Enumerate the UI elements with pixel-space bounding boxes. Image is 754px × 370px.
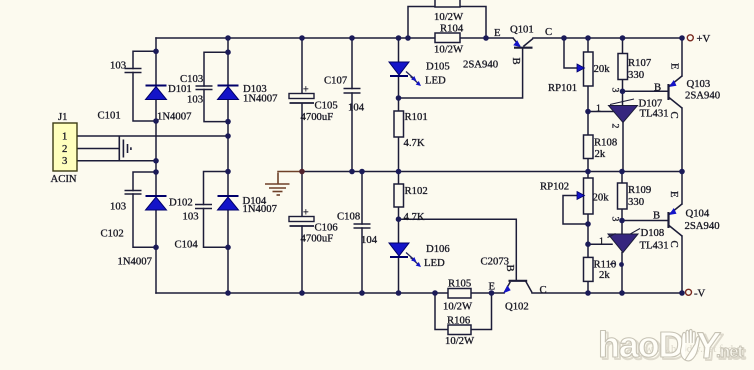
wire Q102 base to LED node [399,219,517,280]
svg-text:103: 103 [187,94,203,106]
capacitor C102 103 [101,191,142,240]
wire Q103 emitter collector stubs [681,38,683,172]
wire bottom -V rail right of Q102 [532,292,682,294]
wire C106 branch [301,172,303,294]
svg-text:TL431: TL431 [640,240,669,252]
svg-text:D105: D105 [426,61,450,73]
svg-text:D106: D106 [426,243,450,255]
resistor R104 10/2W [434,23,464,56]
svg-text:1: 1 [596,103,601,114]
junction dots left bus [153,49,159,251]
capacitor C106 4700uF electrolytic [289,208,338,245]
svg-text:C102: C102 [101,228,124,240]
wire J1 pin2 to chassis [77,148,119,150]
svg-text:3: 3 [62,155,67,167]
svg-text:B: B [654,82,661,94]
svg-text:3: 3 [609,217,620,222]
svg-text:330: 330 [628,69,644,81]
svg-text:E: E [668,191,680,198]
svg-text:330: 330 [628,196,644,208]
junction dots bottom rail [225,290,685,296]
svg-text:C103: C103 [180,73,203,85]
svg-text:D102: D102 [169,197,193,209]
svg-text:1N4007: 1N4007 [157,111,192,123]
svg-text:1N4007: 1N4007 [243,93,278,105]
wire top +V rail right of Q101 [533,37,682,39]
svg-text:2: 2 [62,143,67,155]
svg-text:R109: R109 [628,184,651,196]
resistor R105 10/2W [443,278,473,313]
svg-text:Q101: Q101 [510,24,534,36]
svg-text:+: + [303,85,309,96]
svg-text:Q103: Q103 [687,78,711,90]
svg-text:2k: 2k [595,148,606,160]
wire C105 branch [301,38,303,172]
svg-text:B: B [653,210,660,222]
capacitor C101 103 [98,60,142,122]
wire D108 ref pin1 [588,243,612,245]
svg-text:TL431: TL431 [640,108,669,120]
svg-text:4.7K: 4.7K [404,211,425,223]
svg-text:.net: .net [716,342,744,361]
wire Q104 emitter collector stubs [681,172,683,294]
wire Q103 base [623,90,669,92]
svg-text:R106: R106 [447,315,471,327]
svg-text:E: E [668,63,680,70]
svg-text:4700uF: 4700uF [301,111,334,123]
svg-text:R102: R102 [405,185,428,197]
svg-text:104: 104 [361,234,378,246]
wire Q101 collector to RP101 wiper [564,38,578,68]
svg-text:haoD: haoD [598,324,683,365]
connector J1 ACIN [51,111,78,185]
wire second bridge bus x=228 [227,38,229,293]
wire C102 loop [133,172,156,247]
LED D106 [389,243,450,269]
svg-text:C101: C101 [98,110,121,122]
wire D107 ref pin1 [588,111,613,113]
resistor R109 330 [618,183,652,209]
svg-text:103: 103 [183,211,199,223]
svg-text:C107: C107 [324,75,348,87]
capacitor C103 103 [180,73,213,106]
svg-text:R101: R101 [405,111,428,123]
svg-text:2SA940: 2SA940 [685,220,720,232]
svg-text:B: B [504,265,516,272]
wire R109 D108 column [621,172,623,294]
svg-text:ACIN: ACIN [51,173,77,185]
svg-text:20k: 20k [593,192,610,204]
svg-text:C104: C104 [175,239,199,251]
svg-text:R105: R105 [448,278,471,290]
resistor R102 4.7K [394,184,428,223]
svg-text:C108: C108 [337,211,360,223]
svg-text:R107: R107 [628,57,652,69]
transistor Q102 C2073 [481,256,547,313]
wire Q104 base [622,220,668,222]
wire RP101 R108 column [587,38,589,172]
svg-text:C105: C105 [315,100,338,112]
junction dots second bus [225,49,231,250]
potentiometer RP101 20k [548,52,610,94]
svg-text:10/2W: 10/2W [434,44,464,56]
svg-text:20k: 20k [594,63,611,75]
capacitor C108 104 [337,211,378,247]
svg-text:-V: -V [694,288,706,300]
wire 0V mid rail [278,171,682,173]
svg-text:D108: D108 [641,227,665,239]
resistor R110 2k [584,257,624,281]
svg-text:1N4007: 1N4007 [243,203,278,215]
svg-text:R108: R108 [594,137,617,149]
capacitor C105 4700uF electrolytic [289,85,338,124]
svg-text:E: E [494,27,501,39]
wire left bridge bus x=156 [155,38,157,293]
svg-text:3: 3 [610,88,621,93]
svg-text:R104: R104 [440,23,464,35]
svg-text:LED: LED [424,257,445,269]
wire J1 pin1 to bridge [77,135,228,137]
chassis earth on J1 pin2 [119,137,131,161]
junction dots top rail [225,35,685,41]
svg-text:1N4007: 1N4007 [118,256,153,268]
resistor R101 4.7K [394,111,428,149]
wire R107 D107 column [622,38,625,172]
junction dots misc nodes [396,89,626,248]
svg-text:4700uF: 4700uF [301,233,334,245]
svg-text:10/2W: 10/2W [443,301,473,313]
svg-text:RP101: RP101 [548,82,577,94]
svg-text:10/2W: 10/2W [445,335,475,347]
wire C108 branch [361,172,363,294]
svg-text:B: B [510,58,522,65]
svg-text:10/2W: 10/2W [434,11,464,23]
svg-text:103: 103 [110,60,126,72]
transistor Q101 2SA940 [463,24,552,71]
shunt regulator D107 TL431 [596,88,669,129]
shunt regulator D108 TL431 [599,217,669,253]
svg-text:103: 103 [110,201,126,213]
junction dots mid rail [299,169,685,175]
svg-text:Q104: Q104 [686,208,710,220]
wire R102 D106 branch [398,172,400,294]
svg-text:J1: J1 [58,111,68,123]
diode D103 1N4007 [218,83,279,105]
svg-text:2: 2 [610,124,621,129]
svg-text:104: 104 [348,102,365,114]
wire R106 parallel loop [435,293,492,330]
potentiometer RP102 20k [540,178,609,214]
wire C104 loop [204,172,229,248]
svg-text:C: C [668,241,680,248]
svg-text:1: 1 [599,236,604,247]
svg-text:LED: LED [425,75,446,87]
terminal +V [687,33,710,45]
svg-text:1: 1 [62,131,67,143]
capacitor C107 104 [324,75,365,114]
svg-text:+: + [303,208,309,219]
watermark haoDIY.net [598,324,746,368]
terminal -V [686,288,706,300]
wire D105 R101 branch [398,38,400,172]
wire C107 branch [351,38,353,172]
LED D105 [389,61,450,87]
svg-text:C: C [668,112,680,119]
svg-text:2k: 2k [599,269,610,281]
transistor Q104 2SA940 [653,191,720,248]
wire RP102 wiper loop [563,196,588,225]
wire C103 loop [204,52,228,121]
wire RP102 R110 column [587,172,589,294]
wire bottom -V rail left of Q102 [156,292,504,294]
svg-text:2SA940: 2SA940 [685,90,720,102]
svg-text:2SA940: 2SA940 [463,59,498,71]
svg-text:C: C [545,26,552,38]
svg-text:C: C [540,284,547,296]
svg-text:4.7K: 4.7K [404,137,425,149]
wire C101 loop [133,51,156,121]
ground symbol [265,173,290,196]
diode D102 1N4007 [118,196,193,268]
resistor R103 10/2W (top, partly cropped) [434,0,464,23]
svg-text:+V: +V [697,33,711,45]
wire R103 parallel loop [408,7,486,39]
transistor Q103 2SA940 [654,63,720,119]
capacitor C104 103 [175,205,213,251]
wire J1 pin3 to bridge [77,160,156,162]
diode D101 1N4007 [146,83,193,123]
resistor R106 10/2W [445,315,475,348]
wire Q101 base to LED node [399,49,523,99]
svg-text:RP102: RP102 [540,181,569,193]
wire top +V rail left of Q101 [156,37,513,39]
diode D104 1N4007 [218,195,278,215]
resistor R107 330 [618,54,652,82]
resistor R108 2k [584,135,618,160]
svg-text:Q102: Q102 [505,301,529,313]
